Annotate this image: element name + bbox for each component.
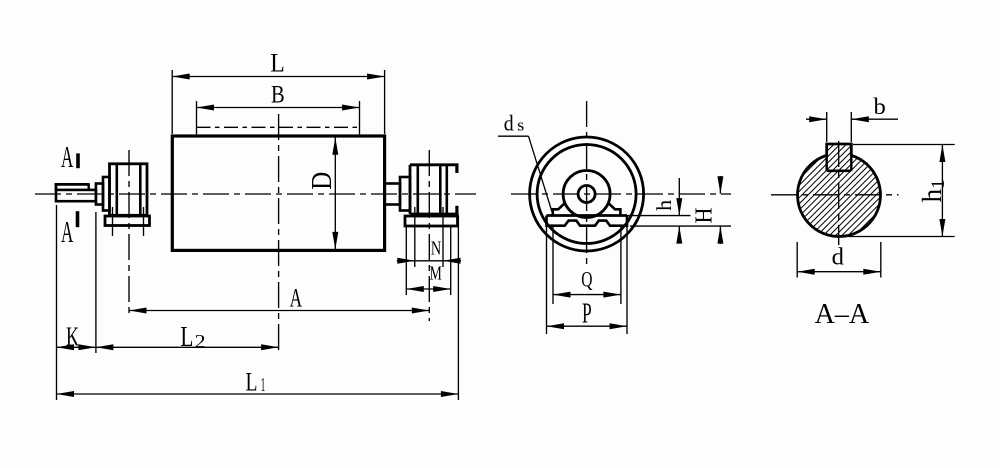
svg-text:h1: h1	[917, 179, 949, 202]
svg-text:A: A	[61, 139, 74, 174]
svg-text:d: d	[504, 111, 514, 136]
svg-text:L: L	[246, 367, 258, 396]
svg-text:A: A	[61, 214, 74, 249]
svg-text:M: M	[430, 262, 442, 284]
svg-text:Q: Q	[581, 266, 592, 291]
svg-text:A: A	[290, 283, 303, 312]
svg-text:B: B	[271, 82, 285, 109]
svg-text:d: d	[832, 244, 844, 270]
svg-text:s: s	[517, 116, 524, 135]
svg-text:A–A: A–A	[815, 298, 870, 330]
svg-text:H: H	[692, 208, 718, 224]
svg-text:b: b	[874, 94, 886, 119]
svg-text:h: h	[652, 199, 676, 211]
svg-text:2: 2	[195, 331, 206, 352]
svg-text:N: N	[431, 237, 441, 259]
svg-text:K: K	[66, 322, 79, 352]
svg-text:L: L	[180, 322, 193, 353]
svg-text:D: D	[307, 172, 338, 190]
svg-text:1: 1	[261, 374, 266, 396]
svg-text:P: P	[582, 299, 592, 330]
svg-text:L: L	[270, 48, 285, 77]
